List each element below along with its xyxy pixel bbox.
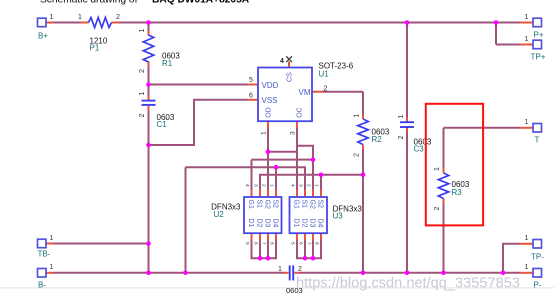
wire B- sense line (186, 167, 306, 189)
junction node D (319, 173, 324, 178)
svg-text:8: 8 (269, 242, 275, 245)
svg-text:2: 2 (434, 207, 441, 211)
wire TP+ branch horizontal (496, 44, 520, 46)
terminal TB- (38, 239, 47, 248)
pin C3 2 (406, 127, 408, 132)
pin U1 3 OC (296, 121, 298, 128)
svg-text:1: 1 (278, 266, 282, 273)
svg-text:P-: P- (534, 280, 542, 289)
wire P- line to U3 S2 (320, 175, 322, 190)
wire R3 to P- rail (443, 204, 445, 273)
pin R1 2 (148, 62, 150, 67)
mosfet U2 body DFN3x3 (244, 197, 282, 233)
wire B- rail left (54, 272, 284, 274)
svg-text:1: 1 (525, 36, 529, 43)
wire top rail to C3 (406, 23, 408, 118)
svg-text:2: 2 (261, 184, 267, 187)
svg-text:4: 4 (290, 184, 296, 187)
svg-text:BAQ DW01A+8205A: BAQ DW01A+8205A (152, 0, 250, 6)
svg-text:TB-: TB- (38, 250, 51, 259)
pin P1 1 (81, 22, 89, 24)
wire OC net horizontal (252, 159, 314, 161)
op-amp U1 protection IC body (258, 68, 312, 122)
svg-text:1: 1 (525, 235, 529, 242)
pin P- 1 (520, 272, 534, 274)
svg-text:G1: G1 (293, 200, 300, 209)
svg-text:6: 6 (253, 242, 259, 245)
svg-text:VM: VM (299, 88, 311, 97)
wire VSS net (149, 100, 249, 145)
svg-text:1: 1 (434, 167, 441, 171)
svg-text:https://blog.csdn.net/qq_33557: https://blog.csdn.net/qq_33557853 (296, 276, 520, 292)
terminal B- (38, 269, 47, 278)
wire TP+ branch vertical (495, 23, 497, 45)
pin C2 2 (294, 272, 299, 274)
wire P- rail right (300, 272, 520, 274)
pin bottom x321 (320, 233, 322, 240)
svg-text:1: 1 (139, 92, 146, 96)
separator line at page bottom (0, 287, 554, 289)
svg-text:1: 1 (78, 14, 82, 21)
resistor R1 (143, 35, 153, 62)
svg-text:1: 1 (50, 264, 54, 271)
junction TP- P- rail (501, 271, 506, 276)
svg-text:R2: R2 (372, 135, 383, 144)
svg-text:1: 1 (525, 264, 529, 271)
junction R2 P- line (361, 173, 366, 178)
svg-text:1: 1 (269, 184, 275, 187)
svg-text:D1: D1 (293, 219, 300, 228)
svg-text:1: 1 (50, 14, 54, 21)
terminal P- (533, 269, 542, 278)
svg-text:D4: D4 (317, 219, 324, 228)
svg-text:B+: B+ (38, 32, 48, 41)
pin B+ 1 (46, 22, 54, 24)
wire C3 to P- rail (406, 132, 408, 273)
junction top rail C3 (405, 20, 410, 25)
svg-text:G2: G2 (264, 200, 271, 209)
pin C2 1 (284, 272, 289, 274)
wire U1 pin3 / U3 G1 vertical (296, 129, 298, 190)
wire TB- rail (54, 243, 149, 245)
wire U2 D2 (259, 241, 261, 259)
svg-text:G2: G2 (309, 200, 316, 209)
svg-text:5: 5 (244, 242, 250, 245)
wire U3 D3 (312, 241, 314, 259)
pin TP+ 1 (520, 44, 534, 46)
pin R2 2 (362, 145, 364, 150)
pin P+ 1 (520, 22, 534, 24)
svg-text:R3: R3 (452, 188, 463, 197)
wire U2 D3 (267, 241, 269, 259)
junction R2 P- rail (361, 271, 366, 276)
pin top x297 (296, 190, 298, 198)
svg-text:VSS: VSS (262, 96, 278, 105)
junction node A OD (266, 150, 271, 155)
svg-text:1: 1 (50, 235, 54, 242)
svg-text:C1: C1 (157, 120, 168, 129)
pin T 1 (520, 127, 534, 129)
svg-text:1: 1 (354, 114, 361, 118)
pin U1 5 VDD (248, 84, 258, 86)
junction U3 drain bus b (311, 256, 316, 261)
svg-text:R1: R1 (162, 59, 173, 68)
pin TP- 1 (520, 243, 534, 245)
svg-text:P1: P1 (90, 44, 100, 53)
terminal P+ (533, 18, 542, 27)
svg-text:2: 2 (139, 69, 146, 73)
svg-text:G1: G1 (247, 200, 254, 209)
pin TB- 1 (46, 243, 54, 245)
svg-text:5: 5 (290, 242, 296, 245)
wire OC to U2 G1 (251, 160, 253, 190)
svg-text:S2: S2 (272, 200, 279, 209)
svg-text:1: 1 (525, 14, 529, 21)
svg-text:C3: C3 (414, 144, 425, 153)
svg-text:4: 4 (280, 58, 284, 65)
pin top x313 (312, 190, 314, 198)
svg-text:3: 3 (290, 131, 297, 135)
capacitor C2 (289, 265, 291, 280)
svg-text:2: 2 (139, 114, 146, 118)
svg-text:6: 6 (249, 93, 253, 100)
svg-text:TP-: TP- (531, 253, 544, 262)
pin B- 1 (46, 272, 54, 274)
pin bottom x276 (275, 233, 277, 240)
pin top x321 (320, 190, 322, 198)
pin top x260 (259, 190, 261, 198)
svg-text:OD: OD (266, 107, 273, 118)
pin bottom x297 (296, 233, 298, 240)
svg-text:D2: D2 (256, 219, 263, 228)
red highlight rectangle around R3 (426, 104, 483, 226)
svg-text:1: 1 (314, 184, 320, 187)
svg-text:D1: D1 (247, 219, 254, 228)
pin P1 2 (112, 22, 120, 24)
svg-text:6: 6 (298, 242, 304, 245)
svg-text:2: 2 (116, 14, 120, 21)
svg-text:8: 8 (314, 242, 320, 245)
wire OD net vertical (267, 129, 269, 190)
pin top x268 (267, 190, 269, 198)
svg-text:2: 2 (324, 86, 328, 93)
svg-text:S1: S1 (301, 200, 308, 209)
junction top rail TP+ (494, 20, 499, 25)
svg-text:Schematic drawing of: Schematic drawing of (40, 0, 138, 6)
svg-text:S2: S2 (317, 200, 324, 209)
svg-text:TP+: TP+ (531, 53, 546, 62)
wire U3 drain bus (297, 241, 321, 259)
svg-text:1: 1 (261, 131, 268, 135)
junction C1 B- rail (146, 271, 151, 276)
wire OC jog to U3 G2 (297, 146, 313, 190)
wire B+ to P1 (54, 22, 81, 24)
wire R2 junction down to P- rail (362, 175, 364, 273)
wire VDD net (149, 84, 249, 86)
svg-text:T: T (535, 136, 540, 145)
svg-text:U3: U3 (333, 212, 344, 221)
terminal TP- (533, 240, 542, 249)
pin U1 4 NC (288, 62, 290, 68)
svg-text:3: 3 (253, 184, 259, 187)
junction sense line B- rail (183, 271, 188, 276)
junction C3 P- rail (405, 271, 410, 276)
svg-text:VDD: VDD (262, 81, 279, 90)
fuse P1 (89, 18, 112, 28)
junction U2 drain bus a (258, 256, 263, 261)
svg-text:2: 2 (354, 153, 361, 157)
svg-text:7: 7 (261, 242, 267, 245)
svg-text:2: 2 (298, 266, 302, 273)
svg-text:D2: D2 (301, 219, 308, 228)
pin top x305 (304, 190, 306, 198)
junction R1 C1 VDD (146, 82, 151, 87)
junction R3 P- rail (441, 271, 446, 276)
pin U1 2 VM (312, 91, 322, 93)
svg-text:P+: P+ (534, 30, 544, 39)
wire top rail P1 to P+ (120, 22, 520, 24)
wire R2 to P- line (362, 150, 364, 175)
pin bottom x251.5 (251, 233, 253, 240)
svg-text:0603: 0603 (286, 286, 303, 295)
pin R1 1 (148, 31, 150, 36)
junction VSS C1 (146, 143, 151, 148)
wire T to R3 (443, 128, 445, 168)
svg-text:4: 4 (244, 184, 250, 187)
svg-text:CS: CS (287, 72, 294, 82)
terminal B+ (38, 18, 47, 27)
wire P- sense line (260, 175, 363, 190)
pin C1 1 (148, 95, 150, 100)
pin U1 6 VSS (248, 99, 258, 101)
junction U2 drain bus b (266, 256, 271, 261)
pin bottom x268 (267, 233, 269, 240)
wire U2 drain bus (252, 241, 277, 259)
pin bottom x313 (312, 233, 314, 240)
no-connect X on U1 pin 4 (286, 56, 292, 62)
svg-text:5: 5 (249, 77, 253, 84)
svg-text:B-: B- (38, 280, 46, 289)
svg-text:U2: U2 (214, 210, 225, 219)
pin bottom x305 (304, 233, 306, 240)
capacitor C3 (400, 121, 414, 123)
svg-text:S1: S1 (256, 200, 263, 209)
junction node B OC (311, 157, 316, 162)
junction top rail R1 (146, 20, 151, 25)
pin R3 1 (443, 168, 445, 173)
pin R2 1 (362, 114, 364, 119)
terminal TP+ (533, 40, 542, 49)
svg-text:D4: D4 (272, 219, 279, 228)
wire R1 to C1 (148, 62, 150, 100)
wire C1 to B- rail (148, 106, 150, 273)
svg-text:2: 2 (306, 184, 312, 187)
terminal T (533, 124, 542, 133)
pin top x276 (275, 190, 277, 198)
svg-text:7: 7 (306, 242, 312, 245)
resistor R3 (438, 173, 448, 199)
wire VM down to R2 (362, 92, 364, 114)
wire T net horizontal (444, 127, 520, 129)
pin top x251.5 (251, 190, 253, 198)
pin C1 2 (148, 106, 150, 111)
pin R3 2 (443, 199, 445, 204)
resistor R2 (358, 119, 368, 145)
wire VM to R2 (322, 91, 363, 93)
svg-text:D3: D3 (309, 219, 316, 228)
pin C3 1 (406, 118, 408, 123)
wire OD net horizontal (268, 151, 297, 153)
svg-text:U1: U1 (319, 70, 330, 79)
svg-text:2: 2 (398, 136, 405, 140)
pin bottom x260 (259, 233, 261, 240)
wire top rail to R1 (148, 23, 150, 36)
junction TB- (146, 241, 151, 246)
wire U3 D2 (304, 241, 306, 259)
svg-text:1: 1 (398, 115, 405, 119)
svg-text:3: 3 (298, 184, 304, 187)
wire B- sense line down to rail (185, 167, 187, 273)
wire B- line to U2 S2 (275, 167, 277, 189)
capacitor C1 (142, 100, 156, 102)
mosfet U3 body DFN3x3 (290, 197, 328, 233)
wire TP- branch (503, 244, 520, 273)
junction node C (274, 165, 279, 170)
svg-text:OC: OC (297, 107, 304, 118)
svg-text:1: 1 (525, 119, 529, 126)
svg-text:1: 1 (139, 29, 146, 33)
svg-text:D3: D3 (264, 219, 271, 228)
pin U1 1 OD (267, 121, 269, 128)
junction U3 drain bus a (303, 256, 308, 261)
